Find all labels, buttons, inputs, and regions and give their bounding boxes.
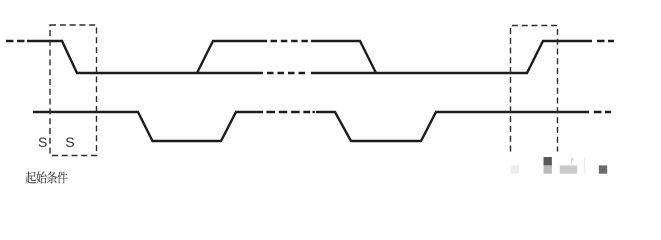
label 起始条件 — [26, 171, 68, 183]
watermark faint vertical line — [584, 158, 585, 174]
start condition dashed box right (open bottom) — [511, 26, 558, 152]
wire SCL high dashed break — [267, 111, 311, 113]
wire SCL high dot segment — [313, 111, 316, 113]
wire SDA pulse high dashed break — [271, 40, 309, 42]
start condition dashed box left — [50, 25, 97, 156]
wire SDA trailing dashes — [597, 40, 614, 42]
wire SDA low then rising edge to high (right box) — [311, 41, 592, 73]
watermark block 3 — [544, 165, 552, 173]
watermark block 4 wide — [560, 165, 577, 173]
wire SCL high, low pulse, back high — [33, 112, 263, 141]
svg-text:S: S — [65, 134, 74, 150]
wire SDA high then falling edge into low (start condition) — [27, 41, 263, 73]
wire SDA pulse high then falling edge — [311, 41, 376, 73]
wire SDA lead-in dashes — [6, 40, 27, 42]
wire SDA low dashed break — [267, 72, 309, 74]
svg-text:S: S — [38, 134, 47, 150]
watermark block 5 — [599, 165, 607, 173]
wire SCL trailing dashes — [594, 111, 611, 113]
wire SCL second low pulse then high — [316, 112, 589, 141]
watermark block 2 dark — [544, 157, 552, 165]
watermark faint vertical line 2 — [571, 157, 572, 167]
watermark block 1 — [511, 165, 520, 173]
wire SDA data pulse rising edge and high — [197, 41, 267, 73]
watermark faint dot — [571, 158, 574, 161]
